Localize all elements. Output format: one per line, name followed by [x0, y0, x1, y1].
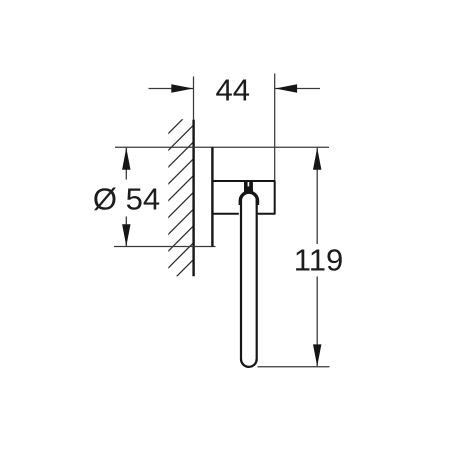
svg-text:Ø 54: Ø 54 — [93, 181, 160, 216]
ring tube right line — [256, 199, 258, 359]
wall face line — [192, 120, 194, 277]
extension line right of 44 (housing front) — [274, 74, 276, 182]
extension line top (flange top, shared by diameter 54 and 119) — [115, 146, 329, 148]
dimension 44 leader left — [149, 88, 194, 90]
arrow up (d54 top) — [122, 148, 130, 170]
arrow up (119 top) — [313, 148, 321, 170]
svg-text:44: 44 — [216, 72, 250, 107]
housing bottom edge right part — [257, 213, 275, 215]
extension line bottom of flange (diameter 54) — [114, 246, 216, 248]
housing bottom edge left part — [212, 213, 239, 215]
ring neck left bar — [244, 181, 248, 191]
ring bottom cap — [241, 359, 257, 367]
housing right edge — [274, 181, 276, 214]
arrow right of 44 pointing left — [275, 84, 297, 92]
arrow left of 44 pointing right — [171, 84, 193, 92]
extension line bottom of ring (119) — [258, 366, 330, 368]
ring tube left line — [240, 199, 242, 359]
wall hatching — [167, 107, 195, 303]
ring neck bridge — [244, 186, 253, 192]
arrow down (d54 bottom) — [122, 224, 130, 246]
extension line above wall (left of 44) — [193, 77, 195, 120]
dimension line 119 lower segment — [316, 277, 318, 367]
dimension 44 leader right — [275, 88, 320, 90]
dimension line diameter 54 lower segment — [125, 217, 127, 247]
ring top dome — [240, 192, 257, 205]
svg-text:119: 119 — [294, 243, 343, 278]
arrow down (119 bottom) — [313, 344, 321, 366]
housing top edge — [212, 180, 276, 182]
flange right edge — [211, 147, 213, 247]
ring neck right bar — [249, 181, 253, 191]
dimension line diameter 54 upper segment — [125, 148, 127, 180]
dimension line 119 upper segment — [316, 148, 318, 244]
